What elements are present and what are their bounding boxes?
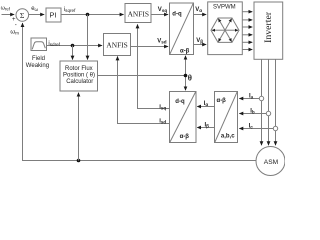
ANFIS U1 q-axis: [125, 4, 151, 23]
wire Ib: [239, 113, 266, 115]
svg-text:Vsd: Vsd: [157, 39, 167, 45]
ANFIS U2 d-axis: [104, 34, 131, 56]
SVPWM block: [208, 2, 243, 55]
svg-text:Inverter: Inverter: [263, 11, 274, 43]
svg-text:Ic: Ic: [249, 124, 254, 130]
svg-text:Iβ: Iβ: [205, 122, 210, 128]
wire phase b: [268, 59, 270, 145]
svg-text:isq: isq: [159, 104, 166, 110]
wire isdref: [47, 45, 103, 47]
svg-text:ANFIS: ANFIS: [128, 10, 149, 19]
svg-text:Field: Field: [32, 56, 45, 62]
svg-text:isqref: isqref: [64, 7, 76, 13]
svg-text:ASM: ASM: [264, 159, 278, 166]
svg-text:eω: eω: [31, 6, 38, 12]
svg-text:ωref: ωref: [1, 6, 11, 12]
field weakening block: [26, 38, 49, 69]
svg-text:ωm: ωm: [10, 30, 19, 36]
wire θ: [98, 56, 186, 91]
svg-text:Vsq: Vsq: [158, 7, 168, 13]
PI controller: [46, 8, 61, 22]
wire gate signals to inverter: [242, 12, 252, 50]
svg-text:α-β: α-β: [180, 48, 190, 54]
svg-text:Vβ: Vβ: [196, 38, 203, 44]
wire speed branch to flux calculator: [78, 93, 80, 161]
αβ to dq current transform block: [170, 92, 197, 143]
svg-text:-: -: [15, 23, 17, 29]
current sensor c: [273, 126, 277, 130]
svg-text:a,b,c: a,b,c: [221, 133, 235, 139]
svg-text:Ia: Ia: [249, 93, 254, 99]
wire Vsq: [151, 14, 168, 16]
junction isqref node: [86, 13, 90, 17]
svg-text:ANFIS: ANFIS: [106, 41, 127, 50]
wire speed feedback from ASM: [23, 23, 257, 161]
wire eω error signal: [29, 14, 45, 16]
SVPWM hexagon space vector: [211, 18, 239, 42]
Inverter block: [254, 2, 283, 59]
wire isqref branch to flux calculator: [87, 15, 89, 60]
wire isqref: [61, 14, 124, 16]
svg-text:SVPWM: SVPWM: [213, 4, 236, 10]
current sensor b: [266, 111, 270, 115]
wire phase c: [275, 59, 277, 145]
wire Vβ: [194, 44, 207, 46]
wire Vα: [194, 14, 207, 16]
summing junction Σ: [12, 9, 29, 29]
svg-text:Weaking: Weaking: [26, 63, 49, 69]
svg-text:θ: θ: [188, 73, 192, 82]
current sensor a: [259, 96, 263, 100]
svg-text:isdref: isdref: [48, 41, 60, 47]
svg-text:Σ: Σ: [20, 11, 25, 20]
wire isdref branch to flux calculator: [72, 46, 74, 60]
junction speed feedback node: [77, 159, 81, 163]
wire isq feedback: [138, 24, 170, 108]
svg-text:Vα: Vα: [195, 7, 202, 13]
wire Ic: [239, 128, 273, 130]
svg-text:Ib: Ib: [250, 109, 255, 115]
wire Iβ: [197, 127, 214, 129]
svg-text:Iα: Iα: [204, 101, 209, 107]
junction isdref node: [71, 44, 75, 48]
svg-text:d-q: d-q: [172, 12, 182, 18]
wire ωref input: [2, 14, 15, 16]
ASM motor: [256, 147, 285, 176]
wire isd feedback: [118, 56, 170, 123]
svg-text:Rotor Flux: Rotor Flux: [65, 66, 93, 72]
junction θ node: [184, 74, 188, 78]
svg-text:PI: PI: [50, 11, 57, 20]
svg-text:α-β: α-β: [217, 98, 227, 104]
rotor flux position calculator: [60, 61, 98, 91]
dq to αβ voltage transform block: [170, 3, 194, 55]
αβ to abc transform block: [215, 92, 238, 143]
wire Iα: [197, 106, 214, 108]
svg-text:isd: isd: [159, 118, 166, 124]
svg-text:Position ( θ): Position ( θ): [63, 73, 95, 79]
wire phase a: [261, 59, 263, 145]
svg-text:α-β: α-β: [180, 134, 190, 140]
wire Ia: [239, 98, 259, 100]
svg-text:Calculator: Calculator: [66, 79, 93, 85]
wire Vsd: [131, 46, 169, 48]
svg-text:d-q: d-q: [175, 99, 185, 105]
